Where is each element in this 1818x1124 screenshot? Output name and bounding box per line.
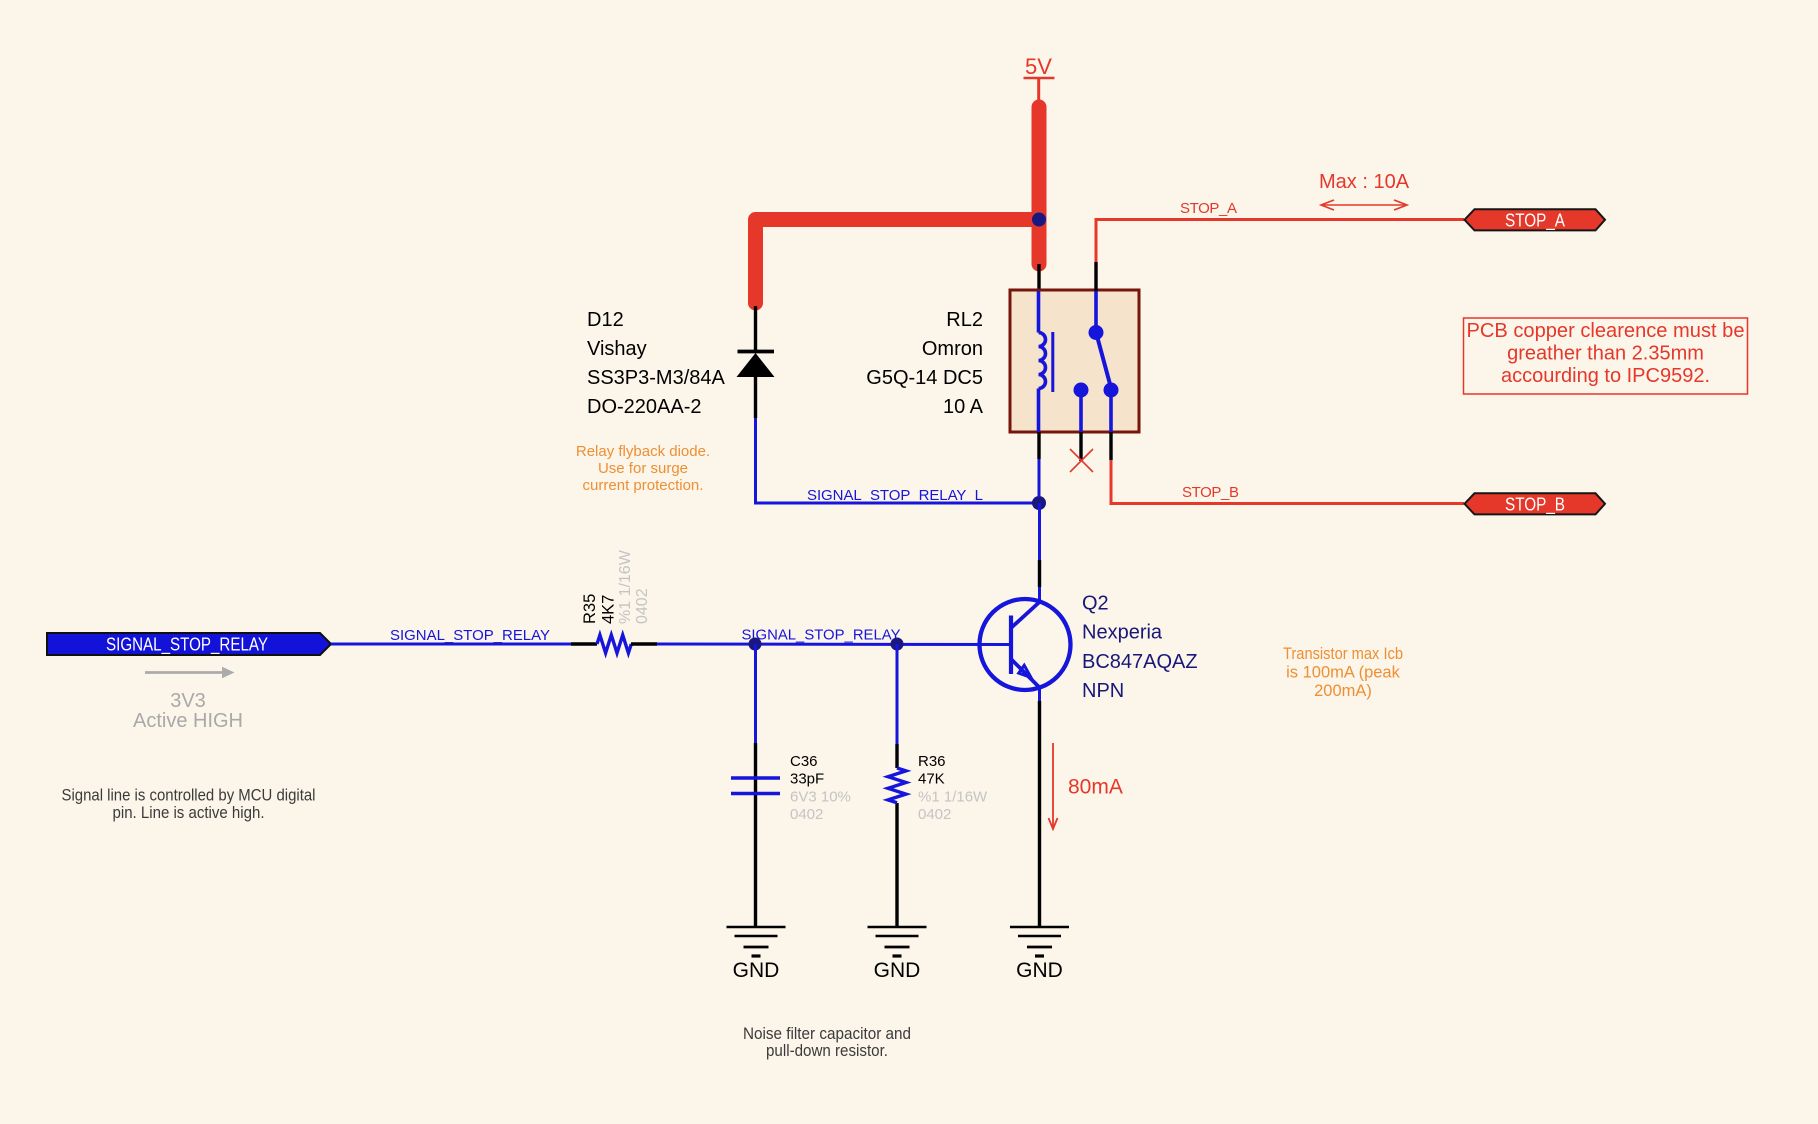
wire pin coil bottom xyxy=(1037,432,1040,459)
wire pin switch NC xyxy=(1079,432,1082,461)
svg-text:DO-220AA-2: DO-220AA-2 xyxy=(587,396,702,418)
svg-text:BC847AQAZ: BC847AQAZ xyxy=(1082,651,1198,673)
ground Q2 emitter xyxy=(1010,927,1069,956)
svg-text:Relay flyback diode.: Relay flyback diode. xyxy=(576,443,710,460)
svg-text:STOP_B: STOP_B xyxy=(1182,484,1239,501)
svg-text:D12: D12 xyxy=(587,309,624,331)
svg-text:Q2: Q2 xyxy=(1082,593,1109,615)
R35 labels (rotated) xyxy=(581,549,651,624)
flag STOP_A xyxy=(1465,209,1606,231)
wire pin switch common top xyxy=(1094,262,1097,291)
diode D12 xyxy=(737,306,775,418)
junction 5V node xyxy=(1032,213,1046,227)
wire diode anode down xyxy=(754,418,757,503)
svg-text:%1 1/16W: %1 1/16W xyxy=(918,789,988,806)
wire STOP_A xyxy=(1096,220,1464,263)
svg-text:Noise filter capacitor and: Noise filter capacitor and xyxy=(743,1025,911,1043)
R36 labels xyxy=(918,753,988,823)
svg-text:SS3P3-M3/84A: SS3P3-M3/84A xyxy=(587,367,726,389)
svg-text:R36: R36 xyxy=(918,753,946,770)
svg-text:current protection.: current protection. xyxy=(583,477,704,494)
resistor R35 xyxy=(571,635,657,653)
svg-text:Nexperia: Nexperia xyxy=(1082,622,1163,644)
arrow direction gray xyxy=(145,667,235,678)
svg-text:is 100mA (peak: is 100mA (peak xyxy=(1286,664,1400,682)
flag STOP_B xyxy=(1465,493,1606,515)
svg-text:80mA: 80mA xyxy=(1068,776,1123,799)
svg-text:Max : 10A: Max : 10A xyxy=(1319,171,1410,193)
svg-text:4K7: 4K7 xyxy=(600,595,618,624)
relay RL2 body xyxy=(1010,290,1139,432)
note 3V3 Active HIGH xyxy=(133,690,243,732)
note noise filter xyxy=(743,1025,911,1060)
wire net SIGNAL_STOP_RELAY_L xyxy=(754,502,1039,505)
svg-text:3V3: 3V3 xyxy=(170,690,206,712)
svg-text:33pF: 33pF xyxy=(790,771,824,788)
svg-text:STOP_A: STOP_A xyxy=(1180,200,1237,217)
resistor R36 xyxy=(888,768,906,803)
junction relay coil / collector node xyxy=(1032,496,1046,510)
arrow double-headed xyxy=(1321,200,1407,210)
svg-text:Omron: Omron xyxy=(922,338,983,360)
svg-text:6V3 10%: 6V3 10% xyxy=(790,789,851,806)
svg-text:C36: C36 xyxy=(790,753,818,770)
wire thick 5V branch to diode xyxy=(756,220,1040,304)
svg-text:R35: R35 xyxy=(581,594,599,624)
wire emitter vertical xyxy=(1038,688,1041,927)
svg-text:Transistor max Icb: Transistor max Icb xyxy=(1283,645,1403,663)
svg-text:0402: 0402 xyxy=(918,806,951,823)
svg-text:0402: 0402 xyxy=(634,588,651,624)
D12 labels xyxy=(587,309,726,418)
wire R36 branch xyxy=(896,644,899,927)
note PCB clearance box xyxy=(1464,318,1748,394)
svg-text:GND: GND xyxy=(733,959,780,982)
svg-text:accourding to IPC9592.: accourding to IPC9592. xyxy=(1501,365,1710,387)
svg-text:greather than 2.35mm: greather than 2.35mm xyxy=(1507,343,1704,365)
note transistor max Icb xyxy=(1283,645,1403,700)
svg-text:GND: GND xyxy=(874,959,921,982)
RL2 labels xyxy=(866,309,983,418)
svg-text:NPN: NPN xyxy=(1082,680,1124,702)
wire C36 branch xyxy=(754,644,757,927)
flag SIGNAL_STOP_RELAY xyxy=(47,633,331,656)
wire pin switch NO bottom xyxy=(1109,432,1112,460)
svg-text:Active HIGH: Active HIGH xyxy=(133,710,243,732)
transistor Q2 xyxy=(980,599,1071,690)
svg-text:PCB copper clearence must be: PCB copper clearence must be xyxy=(1467,320,1745,342)
note MCU digital pin xyxy=(62,787,316,823)
ground R36 xyxy=(868,927,927,956)
svg-text:SIGNAL_STOP_RELAY_L: SIGNAL_STOP_RELAY_L xyxy=(807,487,983,504)
ground C36 xyxy=(727,927,786,956)
wire collector vertical xyxy=(1038,503,1041,601)
svg-text:pin. Line is active high.: pin. Line is active high. xyxy=(113,804,265,822)
relay switch xyxy=(1074,291,1119,432)
svg-text:pull-down resistor.: pull-down resistor. xyxy=(766,1042,888,1060)
relay coil xyxy=(1039,291,1053,432)
svg-text:STOP_A: STOP_A xyxy=(1505,211,1565,232)
svg-text:RL2: RL2 xyxy=(946,309,983,331)
svg-text:10 A: 10 A xyxy=(943,396,984,418)
svg-text:200mA): 200mA) xyxy=(1314,682,1372,700)
svg-text:Vishay: Vishay xyxy=(587,338,647,360)
svg-text:5V: 5V xyxy=(1025,54,1052,79)
svg-text:SIGNAL_STOP_RELAY: SIGNAL_STOP_RELAY xyxy=(106,635,268,656)
svg-text:G5Q-14 DC5: G5Q-14 DC5 xyxy=(866,367,983,389)
svg-text:SIGNAL_STOP_RELAY: SIGNAL_STOP_RELAY xyxy=(390,627,550,644)
capacitor C36 xyxy=(731,778,780,794)
svg-text:STOP_B: STOP_B xyxy=(1505,495,1565,516)
svg-text:0402: 0402 xyxy=(790,806,823,823)
svg-text:%1 1/16W: %1 1/16W xyxy=(617,549,634,624)
no-connect X xyxy=(1070,449,1093,472)
junction C36 node xyxy=(749,638,762,651)
wire R35 to base node xyxy=(657,643,1009,647)
junction R36 node xyxy=(891,638,904,651)
note relay flyback diode xyxy=(576,443,710,494)
current arrow 80mA xyxy=(1049,743,1058,829)
svg-text:GND: GND xyxy=(1016,959,1063,982)
power symbol 5V xyxy=(1024,54,1055,106)
wire STOP_B xyxy=(1111,460,1464,504)
Q2 labels xyxy=(1082,593,1198,703)
wire flag to R35 xyxy=(331,643,571,646)
svg-text:Signal line is controlled by M: Signal line is controlled by MCU digital xyxy=(62,787,316,805)
C36 labels xyxy=(790,753,851,823)
svg-text:SIGNAL_STOP_RELAY: SIGNAL_STOP_RELAY xyxy=(742,626,901,643)
wire thick 5V vertical bus xyxy=(1032,107,1047,264)
svg-text:Use for surge: Use for surge xyxy=(598,460,688,477)
wire pin relay coil top xyxy=(1037,264,1040,291)
svg-text:47K: 47K xyxy=(918,771,945,788)
